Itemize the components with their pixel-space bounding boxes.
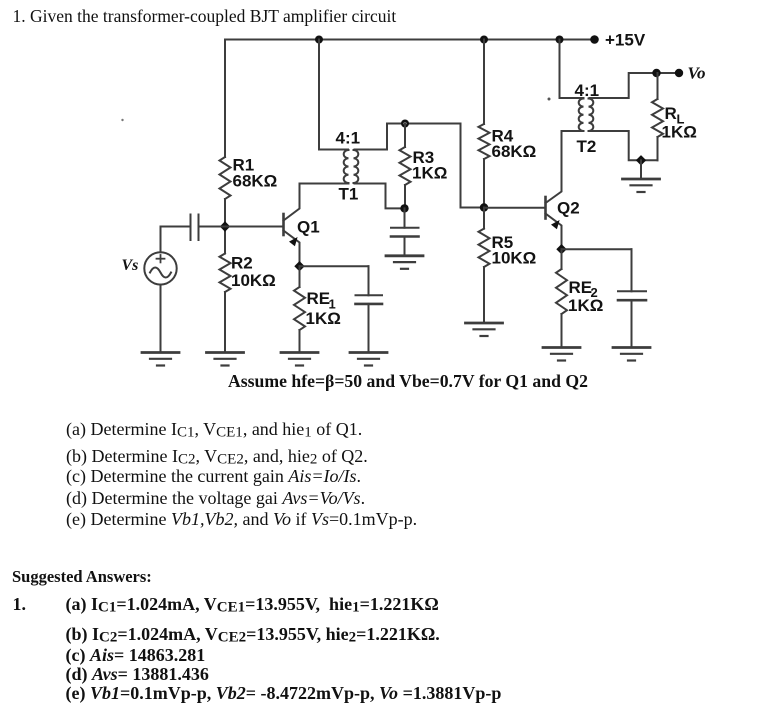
ground RE2	[543, 346, 580, 349]
wire R2 to ground	[224, 292, 226, 353]
source Vs	[144, 252, 176, 284]
wire rail to T2 primary top	[560, 40, 584, 99]
svg-text:10KΩ: 10KΩ	[492, 249, 537, 268]
node RL top junction	[652, 69, 660, 77]
capacitor CE1 bypass	[368, 266, 370, 295]
ground RL/T2	[623, 178, 660, 181]
svg-text:R2: R2	[231, 254, 253, 273]
svg-text:RE: RE	[569, 278, 593, 297]
resistor RL 1K	[657, 73, 659, 99]
ground R5	[466, 322, 503, 325]
svg-text:+15V: +15V	[605, 31, 646, 50]
node R3 top open terminal	[401, 120, 409, 128]
node Vo terminal dot	[675, 69, 683, 77]
transformer T2 4:1	[579, 99, 584, 131]
wire emitter node to bypass cap	[562, 248, 632, 250]
resistor R4 68K	[479, 124, 490, 159]
node Q1 emitter junction	[294, 261, 304, 271]
resistor RE2 1K	[561, 249, 563, 269]
svg-text:R: R	[665, 104, 677, 123]
svg-text:10KΩ: 10KΩ	[231, 271, 276, 290]
svg-text:1KΩ: 1KΩ	[662, 123, 697, 142]
wire Vs to ground	[160, 285, 162, 353]
wire junction to Q2 base	[484, 207, 545, 209]
wire cap to base node	[199, 226, 226, 228]
node R4 R5 junction	[480, 203, 488, 211]
wire rail corner down to R1	[224, 40, 226, 158]
svg-text:Q2: Q2	[557, 199, 580, 218]
wire T2 secondary top to Vo	[590, 73, 680, 98]
wire rail to R4	[483, 40, 485, 125]
wire T2 primary bottom to Q2 collector	[562, 130, 584, 132]
wire rail to T1 primary top	[319, 40, 348, 150]
wire R5 to ground	[483, 267, 485, 323]
wire T2 secondary bottom to ground node	[590, 131, 658, 160]
node RL bottom ground junction	[636, 155, 646, 165]
svg-text:68KΩ: 68KΩ	[233, 172, 278, 191]
node Q2 emitter junction	[556, 244, 566, 254]
wire RE2 to ground	[561, 314, 563, 348]
node junction dot R4 feed	[480, 36, 488, 44]
transformer T1 4:1	[344, 150, 349, 183]
resistor RE1 1K	[299, 266, 301, 287]
node junction dot T2 feed	[556, 36, 564, 44]
node base of Q1 / R1 R2 junction	[220, 221, 230, 231]
wire node to ground	[640, 160, 642, 179]
svg-text:1KΩ: 1KΩ	[412, 164, 447, 183]
svg-text:1KΩ: 1KΩ	[568, 296, 603, 315]
node +15V terminal dot	[590, 35, 599, 44]
svg-text:T1: T1	[339, 185, 359, 204]
svg-text:1KΩ: 1KΩ	[306, 309, 341, 328]
transistor Q2	[544, 197, 547, 219]
wire Q1 collector to T1 primary	[300, 183, 349, 185]
capacitor CE2 bypass	[631, 249, 633, 291]
ground R2	[207, 351, 244, 354]
wire emitter node to bypass cap	[300, 265, 369, 267]
svg-text:Q1: Q1	[297, 218, 320, 237]
ground CE2	[613, 346, 650, 349]
wire RE1 to ground	[299, 330, 301, 353]
ground below R3 cap	[386, 254, 423, 257]
resistor R2 10K	[220, 254, 231, 293]
resistor R5 10K	[483, 208, 485, 229]
transistor Q1	[282, 214, 285, 235]
resistor R1 68K	[220, 157, 231, 199]
node junction dot T1 feed	[315, 36, 323, 44]
ground Vs	[142, 351, 179, 354]
wire T1 secondary bottom to R3 bottom	[355, 184, 405, 209]
wire Vs to coupling cap	[161, 227, 191, 253]
svg-text:Vs: Vs	[122, 257, 139, 274]
ground RE1	[281, 351, 318, 354]
svg-text:68KΩ: 68KΩ	[492, 142, 537, 161]
wire base node to Q1	[225, 226, 283, 228]
resistor R3 1K	[404, 124, 406, 148]
wire T1 secondary top to R3 node to R4 junction	[355, 124, 485, 208]
ground CE1	[350, 351, 387, 354]
wire R1 to base node	[224, 199, 226, 254]
svg-text:Vo: Vo	[688, 64, 706, 83]
svg-text:4:1: 4:1	[336, 129, 361, 148]
capacitor coupling C1	[190, 215, 192, 241]
svg-text:T2: T2	[577, 137, 597, 156]
node R3 bottom junction	[400, 204, 408, 212]
capacitor below R3	[404, 208, 406, 227]
svg-text:RE: RE	[307, 289, 331, 308]
wire +15V supply rail	[225, 39, 595, 41]
